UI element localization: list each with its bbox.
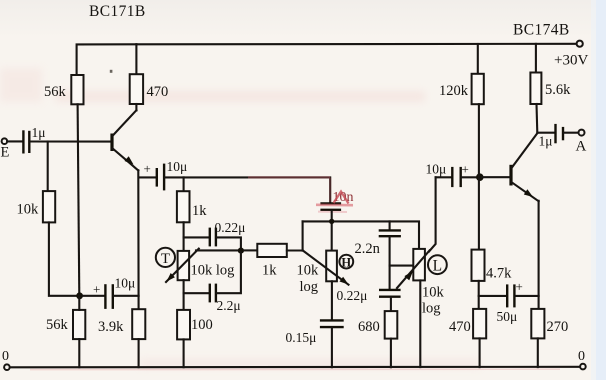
wire 2.2u to wiper node (217, 252, 241, 293)
svg-text:0.22μ: 0.22μ (337, 288, 368, 303)
svg-text:1k: 1k (192, 203, 207, 219)
resistor 56k (lower bias) (73, 310, 85, 339)
svg-text:log: log (422, 301, 441, 317)
capacitor 10n (320, 202, 341, 204)
svg-text:10n: 10n (333, 190, 354, 205)
wire wiper node to 1k mid (244, 249, 257, 251)
svg-text:BC171B: BC171B (89, 3, 146, 20)
wire 120k to node and 4.7k (478, 104, 480, 249)
svg-text:+: + (516, 279, 523, 294)
transistor Q1 collector (113, 110, 137, 135)
svg-text:10k: 10k (422, 285, 445, 301)
svg-text:120k: 120k (439, 83, 469, 99)
svg-text:10k: 10k (297, 263, 320, 279)
wire 470 to collector (135, 104, 137, 110)
resistor 470 (Q1 collector) (130, 74, 143, 104)
red pen tint on wire (248, 176, 330, 178)
capacitor 50u (479, 295, 507, 297)
svg-text:56k: 56k (44, 84, 67, 100)
terminal E input (2, 138, 8, 144)
wire branch to pot L body (390, 265, 414, 267)
wire input to cap (7, 140, 23, 142)
wire 0.22u to wiper node (217, 237, 241, 249)
terminal +30V (577, 41, 583, 47)
resistor 1k (mid series) (257, 244, 287, 257)
potentiometer T 10k log (178, 251, 190, 280)
resistor 680 (385, 311, 398, 339)
wire Q2 base (482, 176, 510, 178)
svg-text:0.22μ: 0.22μ (215, 220, 246, 235)
svg-text:10μ: 10μ (167, 159, 188, 174)
wire pot T bottom (183, 280, 185, 310)
wire pot L bottom to ground (419, 280, 421, 367)
wire 5.6k stub from rail (535, 44, 537, 73)
transistor Q2 collector (512, 133, 538, 168)
wire 0.15u to ground (331, 328, 333, 367)
svg-text:log: log (300, 279, 319, 295)
wire 0.22u to 680 (390, 298, 392, 311)
wire ground rail (7, 366, 583, 369)
potentiometer L 10k log (413, 249, 425, 281)
wire 2.2n down (389, 237, 391, 289)
svg-text:56k: 56k (46, 317, 69, 333)
wire input bias drop to 10k (47, 142, 49, 192)
svg-text:470: 470 (449, 319, 471, 335)
wire 10k bottom to node (49, 222, 77, 295)
resistor 470 (Q2) (473, 309, 486, 339)
wire top supply rail (77, 44, 577, 75)
capacitor 2.2n (389, 221, 391, 229)
wire 10u to emitter leg (114, 295, 139, 297)
wire pot T wiper out (196, 249, 241, 251)
wire 100 to ground (183, 339, 185, 367)
capacitor 1u input (22, 130, 24, 153)
terminal A output (579, 130, 585, 136)
transistor Q2 BC174B base bar (509, 165, 512, 186)
transistor Q1 emitter (113, 149, 139, 171)
wire 10n to pot H top (331, 211, 333, 251)
capacitor 10u feedback (83, 295, 105, 297)
wire 470 to ground (479, 338, 481, 367)
wire 470 stub from rail (135, 44, 137, 74)
capacitor 1u output (537, 132, 555, 134)
wire pot H bottom (331, 281, 333, 319)
transistor Q2 emitter (512, 182, 539, 201)
svg-text:1μ: 1μ (539, 134, 553, 149)
svg-text:10μ: 10μ (115, 276, 136, 291)
wire H node riser (302, 221, 304, 250)
capacitor 10u (Q2 input) (436, 176, 453, 178)
wire tone feed long run (165, 177, 330, 202)
resistor 4.7k (472, 250, 485, 281)
svg-text:+: + (462, 162, 469, 177)
potentiometer H 10k log (326, 251, 337, 282)
wire 4.7k down (478, 281, 480, 309)
wire 270 to ground (537, 338, 539, 367)
svg-text:0: 0 (578, 349, 585, 364)
resistor 120k (472, 74, 484, 104)
wire 1k to pot T (183, 222, 185, 251)
svg-text:BC174B: BC174B (513, 22, 570, 39)
capacitor 10u coupling (139, 176, 157, 178)
resistor 5.6k (530, 73, 541, 105)
blue scan edge strip (596, 0, 606, 380)
svg-text:5.6k: 5.6k (545, 82, 571, 98)
wire drop to 1k (183, 177, 185, 191)
wire 120k stub from rail (477, 44, 479, 74)
capacitor 0.22u bass (379, 289, 401, 291)
capacitor 0.15u (320, 319, 344, 321)
svg-text:+30V: +30V (554, 53, 588, 69)
resistor 56k (upper bias) (71, 75, 83, 104)
svg-text:50μ: 50μ (497, 309, 518, 324)
wire node to 56k lower (78, 296, 80, 310)
wire 3.9k to ground (138, 339, 140, 367)
speck (110, 70, 113, 73)
svg-text:10k log: 10k log (191, 263, 235, 279)
wire 680 to ground (390, 339, 392, 368)
svg-text:3.9k: 3.9k (98, 319, 124, 335)
terminal 0 left (4, 364, 10, 370)
svg-text:1μ: 1μ (32, 125, 46, 140)
svg-text:10μ: 10μ (426, 162, 447, 177)
wire Q1 emitter down (137, 170, 139, 309)
svg-text:+: + (93, 282, 100, 297)
svg-text:+: + (144, 161, 151, 176)
svg-text:A: A (576, 139, 587, 155)
resistor 10k (input) (43, 191, 55, 222)
node wiper junction (238, 248, 244, 254)
capacitor 2.2u treble lower (184, 292, 210, 294)
node Q2 base junction (476, 173, 484, 181)
node bias junction (76, 292, 83, 299)
wire 10u to Q2 base node (462, 176, 478, 178)
svg-text:0: 0 (2, 349, 9, 364)
svg-text:270: 270 (547, 319, 569, 335)
svg-text:2.2n: 2.2n (355, 241, 381, 257)
red pen marks (334, 192, 349, 204)
svg-text:T: T (161, 251, 170, 267)
capacitor 0.22u treble (184, 236, 210, 238)
svg-text:E: E (1, 145, 10, 161)
svg-text:100: 100 (191, 317, 213, 333)
transistor Q1 BC171B base bar (110, 134, 113, 152)
svg-text:H: H (341, 255, 351, 269)
node bus junction (329, 219, 334, 224)
wire 56k lower to ground (78, 339, 80, 367)
svg-text:10k: 10k (17, 202, 40, 218)
svg-text:680: 680 (358, 319, 380, 335)
wire 1k mid to H node (287, 249, 303, 251)
svg-text:470: 470 (147, 84, 169, 100)
svg-text:L: L (433, 258, 442, 275)
wire 5.6k to collector node (535, 104, 538, 133)
svg-text:2.2μ: 2.2μ (217, 298, 241, 313)
svg-text:4.7k: 4.7k (486, 266, 512, 282)
svg-text:1k: 1k (262, 263, 277, 279)
wire pot L wiper up (429, 177, 436, 251)
svg-text:0.15μ: 0.15μ (286, 330, 317, 345)
resistor 270 (531, 309, 544, 339)
resistor 1k (treble top) (177, 191, 190, 222)
wire cap to Q1 base (30, 140, 111, 142)
terminal 0 right (580, 364, 586, 370)
wire 1u to output terminal (564, 132, 578, 134)
resistor 3.9k emitter (132, 309, 145, 339)
resistor 100 (177, 310, 190, 340)
wire Q2 emitter down (538, 201, 540, 309)
wire 50u to emitter leg (516, 295, 539, 297)
wire tone upper bus (303, 221, 419, 249)
wire 56k bottom to base/bias node (78, 104, 80, 295)
